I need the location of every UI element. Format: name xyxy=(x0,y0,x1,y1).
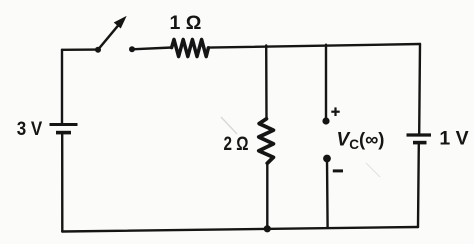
battery V1 (3 V) long plate xyxy=(50,123,78,126)
battery V2 short plate xyxy=(413,141,427,145)
svg-text:2 Ω: 2 Ω xyxy=(224,133,249,155)
wire capacitor branch lower xyxy=(326,159,329,228)
wire left vertical lower (battery V1 to bottom wire) xyxy=(61,134,63,232)
minus polarity mark xyxy=(333,169,343,172)
svg-text:1 V: 1 V xyxy=(439,128,468,150)
wire top-left segment to switch pole xyxy=(62,48,98,51)
plus polarity mark xyxy=(331,107,339,116)
switch throw node dot xyxy=(129,46,135,52)
wire right vertical upper (to battery V2) xyxy=(418,44,421,133)
switch S1 blade with arrowhead xyxy=(98,17,126,50)
battery V1 short plate xyxy=(56,131,71,135)
wire branch of R2 lower xyxy=(266,163,268,229)
svg-text:3 V: 3 V xyxy=(17,118,43,140)
wire left vertical upper (to battery V1 top plate) xyxy=(61,50,63,123)
faint scan smudge near 2-ohm label (decorative) xyxy=(221,117,237,134)
svg-text:1 Ω: 1 Ω xyxy=(170,12,202,34)
resistor R1 (1 ohm) zigzag xyxy=(172,39,209,56)
capacitor top terminal node dot xyxy=(322,117,329,124)
wire right vertical lower (battery V2 to bottom wire) xyxy=(417,144,420,227)
battery V2 (1 V) long plate xyxy=(407,133,432,136)
capacitor bottom terminal node dot xyxy=(323,155,331,163)
wire capacitor branch upper xyxy=(325,45,327,121)
svg-text:VC(∞): VC(∞) xyxy=(337,128,385,151)
wire bottom xyxy=(62,227,418,232)
wire switch throw to resistor R1 xyxy=(132,48,172,50)
wire branch of R2 upper xyxy=(265,45,268,119)
wire R1 to top-right corner xyxy=(208,44,420,48)
switch pole node dot xyxy=(95,47,101,53)
resistor R2 (2 ohm) zigzag xyxy=(259,119,274,163)
junction node dot on bottom wire xyxy=(264,225,271,232)
